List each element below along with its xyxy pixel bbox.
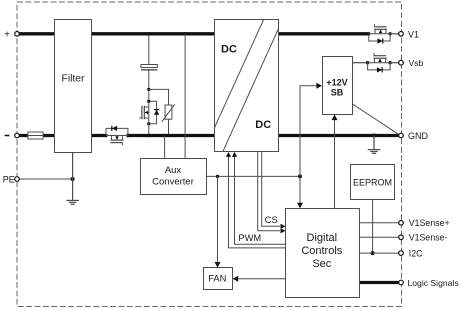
svg-text:GND: GND (408, 131, 429, 141)
label PWM (238, 233, 261, 243)
svg-text:+12V: +12V (326, 77, 347, 87)
svg-text:Controls: Controls (301, 245, 342, 257)
terminal I2C (399, 249, 423, 259)
node FAN branch (216, 175, 219, 178)
svg-text:DC: DC (255, 119, 271, 131)
terminal Vsb (399, 58, 424, 68)
wire + bus to Aux Converter (184, 34, 186, 159)
Aux Converter box (141, 159, 207, 195)
ground (PE earth symbol) (66, 200, 79, 204)
wire V1Sense+ (359, 222, 401, 224)
FAN box (204, 268, 233, 290)
terminal - (5, 133, 20, 138)
node aux + tap on + bus (183, 32, 186, 35)
terminal + (4, 29, 19, 40)
EEPROM box (351, 165, 395, 200)
svg-text:Aux: Aux (165, 165, 182, 176)
wire CS pair line 2 (262, 152, 286, 229)
svg-text:Filter: Filter (62, 73, 85, 84)
varistor RV1 (162, 104, 175, 135)
wire Logic Signals bus (359, 281, 401, 284)
svg-text:+: + (4, 29, 10, 40)
svg-text:V1: V1 (408, 29, 419, 39)
wire aux to Digital Controls (297, 176, 303, 208)
Filter box (55, 20, 92, 153)
terminal V1 (399, 29, 419, 39)
transistor Q2 (inrush FET with body diode on - bus) (104, 126, 129, 145)
wire - bus (inrush FET to DC/DC) (128, 134, 214, 137)
fuse F1 on - input (28, 132, 43, 139)
svg-text:Digital: Digital (307, 232, 338, 244)
svg-text:SB: SB (331, 88, 344, 98)
wire GND earth lead (373, 136, 375, 150)
wire + bus (Filter to DC/DC) (91, 32, 214, 35)
svg-text:DC: DC (221, 44, 237, 56)
svg-text:Sec: Sec (312, 258, 331, 270)
svg-text:I2C: I2C (409, 249, 423, 259)
node EEPROM I2C junction (371, 251, 375, 255)
wire junction down to FET Q1 (148, 89, 150, 101)
svg-text:FAN: FAN (208, 273, 226, 283)
wire aux to +12V SB input (300, 83, 322, 177)
+12V SB box (323, 57, 353, 115)
svg-text:PE: PE (3, 174, 15, 184)
wire - bus to Aux Converter (164, 136, 166, 159)
wire EEPROM to I2C (372, 199, 374, 253)
wire V1 FET to terminal (390, 33, 401, 35)
wire PWM pair line 1 (226, 152, 285, 248)
wire - bus (Filter to inrush FET) (91, 134, 106, 137)
node PE junction (71, 177, 75, 181)
svg-text:V1Sense-: V1Sense- (409, 233, 448, 243)
node FET Q1 at - bus (147, 134, 150, 137)
DC/DC converter box U1 (214, 19, 278, 152)
wire CS pair line 1 (258, 152, 286, 234)
node cap/FET/varistor junction (147, 88, 150, 91)
terminal Logic Signals (399, 278, 459, 288)
wire Vsb FET to terminal (390, 62, 401, 64)
wire PE line (19, 178, 73, 180)
node aux output to SB/digital (298, 174, 302, 178)
transistor Q3 (V1 ORing FET with body diode) (367, 24, 392, 43)
ground (secondary earth symbol) (368, 150, 381, 154)
wire Digital Controls to FAN (233, 276, 285, 282)
wire Digital Controls to +12V SB enable (332, 115, 338, 209)
wire + input bus (terminal to Filter) (17, 32, 55, 35)
wire V1Sense- (359, 236, 401, 238)
svg-text:PWM: PWM (238, 233, 261, 243)
transistor Q4 (Vsb ORing FET with body diode) (366, 53, 392, 72)
terminal GND (399, 131, 429, 141)
svg-text:Vsb: Vsb (409, 58, 424, 68)
terminal V1Sense- (399, 233, 448, 243)
node aux tap at - bus (163, 134, 166, 137)
transistor Q1 (vertical MOSFET with body diode) (139, 100, 159, 136)
node GND bus earth tap (372, 134, 376, 138)
Digital Controls Sec box (286, 209, 360, 298)
wire - input bus (terminal through fuse to Filter) (17, 134, 55, 137)
wire +12V SB output to Vsb FET (353, 62, 368, 64)
svg-text:EEPROM: EEPROM (353, 178, 392, 188)
terminal V1Sense+ (399, 218, 450, 228)
wire +12V SB return diagonal to GND (353, 104, 401, 135)
wire Aux Converter output (207, 175, 301, 177)
terminal PE (3, 174, 20, 184)
wire GND output bus (279, 134, 402, 137)
label CS (265, 215, 278, 226)
wire PWM pair line 2 (232, 152, 285, 244)
svg-text:CS: CS (265, 215, 278, 226)
wire FAN supply drop (215, 176, 221, 267)
svg-text:Converter: Converter (152, 177, 194, 188)
wire V1 output bus (DC/DC to ORing FET) (279, 32, 369, 35)
wire junction to varistor (149, 89, 169, 105)
wire I2C (359, 252, 401, 254)
svg-text:Logic Signals: Logic Signals (408, 278, 459, 288)
node cap tap on + bus (147, 32, 150, 35)
capacitor C1 (bulk cap on + rail) (141, 35, 157, 89)
node varistor at - bus (167, 134, 170, 137)
svg-text:V1Sense+: V1Sense+ (409, 218, 450, 228)
wire Filter earth lead (72, 152, 74, 200)
